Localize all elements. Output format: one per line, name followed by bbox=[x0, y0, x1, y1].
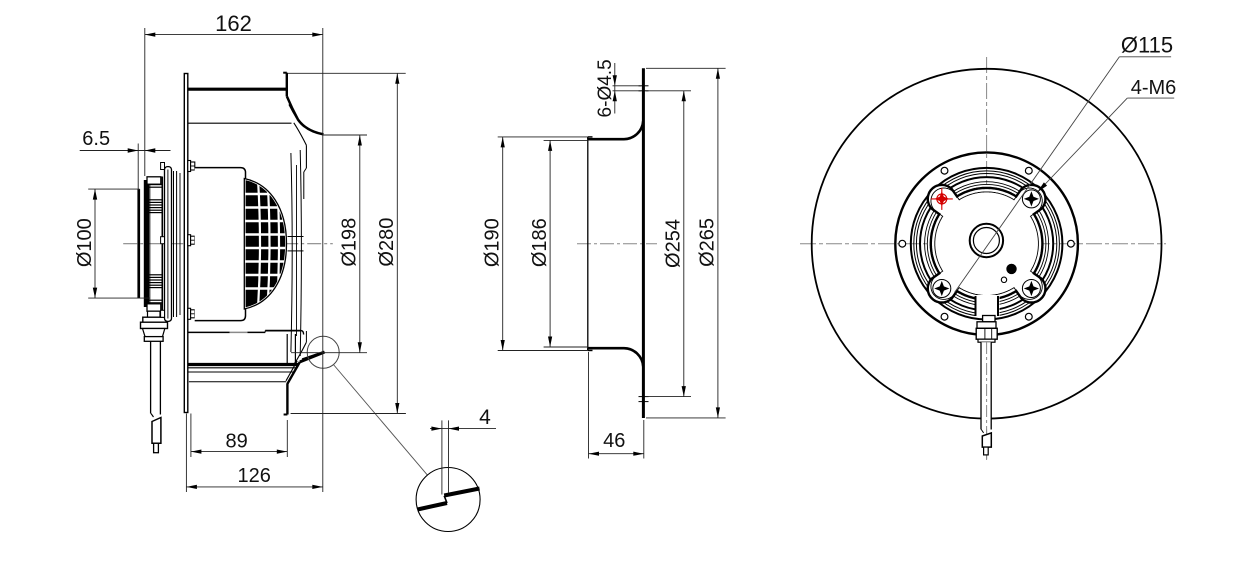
impeller blade edges bbox=[291, 153, 292, 352]
dimension 6-D4.5 bbox=[613, 85, 642, 87]
bolt hole (bottom) bbox=[639, 396, 649, 398]
shaft center hole bbox=[970, 224, 1003, 257]
dimension 89 bbox=[190, 414, 192, 458]
motor body bbox=[195, 168, 246, 321]
dimension D190 bbox=[498, 136, 588, 138]
hub cone bottom edge bbox=[188, 331, 230, 333]
center line (middle view) bbox=[577, 243, 657, 245]
mounting bolts bbox=[188, 161, 191, 172]
dimension 46 bbox=[588, 352, 590, 459]
svg-text:6-Ø4.5: 6-Ø4.5 bbox=[595, 59, 616, 117]
dimension D254 bbox=[646, 90, 691, 92]
detail circle bbox=[416, 468, 480, 532]
shroud inlet profile (top) bbox=[286, 73, 288, 97]
motor terminal bushing stack bbox=[137, 189, 140, 298]
drain dot bbox=[1006, 264, 1016, 274]
flange bolt holes bbox=[1068, 240, 1075, 247]
dimension D198 bbox=[323, 134, 367, 136]
detail leader line bbox=[333, 365, 427, 476]
hub shaft lines bbox=[288, 236, 304, 238]
rotor rim rings bbox=[911, 168, 1063, 320]
cable gland (left view) bbox=[148, 311, 161, 317]
blade top edge (thick) bbox=[188, 88, 287, 91]
blade bottom edge (thick) bbox=[188, 363, 299, 366]
svg-text:Ø100: Ø100 bbox=[74, 218, 96, 267]
cable entry tab bbox=[975, 295, 1000, 317]
center line (left view) bbox=[123, 243, 333, 245]
blade bottom line 2 bbox=[188, 367, 297, 369]
label D115 with leader bbox=[1119, 56, 1171, 58]
dimension 162 bbox=[144, 28, 146, 176]
adapter ring bbox=[173, 171, 175, 317]
svg-text:Ø115: Ø115 bbox=[1121, 32, 1173, 57]
inlet mouth edge bbox=[587, 137, 589, 351]
bearing clover plate bbox=[928, 185, 1046, 303]
dimension D186 bbox=[544, 139, 588, 141]
svg-text:162: 162 bbox=[215, 11, 252, 36]
impeller outer circle bbox=[812, 69, 1162, 419]
cable gland (right view) bbox=[983, 316, 995, 322]
dimension 6.5 bbox=[137, 144, 139, 191]
svg-text:Ø254: Ø254 bbox=[663, 219, 685, 268]
svg-text:46: 46 bbox=[603, 430, 625, 452]
M6 screw (red marked) bbox=[937, 194, 947, 204]
motor flange circle bbox=[895, 152, 1078, 335]
cable (left view) bbox=[150, 341, 152, 413]
shroud bottom verticals bbox=[286, 334, 288, 365]
dimension D100 bbox=[88, 188, 139, 190]
cable connector (left view) bbox=[152, 418, 161, 444]
M6 screws bbox=[1022, 190, 1040, 208]
bolt hole (top) bbox=[639, 85, 649, 87]
blade bottom line 3 bbox=[188, 371, 295, 373]
blade top inner edge bbox=[188, 122, 292, 124]
svg-text:Ø280: Ø280 bbox=[376, 218, 398, 267]
center line horizontal (right view) bbox=[800, 243, 1166, 245]
shroud inlet profile (bottom) bbox=[286, 384, 288, 415]
detail callout circle bbox=[307, 336, 339, 368]
center line vertical (right view) bbox=[986, 57, 988, 460]
svg-text:Ø265: Ø265 bbox=[697, 218, 719, 267]
svg-text:Ø198: Ø198 bbox=[339, 218, 361, 267]
svg-text:4: 4 bbox=[479, 406, 491, 429]
small hole bbox=[1001, 277, 1006, 282]
dimension 126 bbox=[185, 414, 187, 493]
center line through cable (right view) bbox=[986, 342, 988, 460]
cable (right view) bbox=[981, 342, 991, 429]
motor flange plate bbox=[165, 167, 172, 322]
support plate bbox=[184, 74, 188, 413]
dimension D280 bbox=[288, 72, 406, 74]
dimension 4 bbox=[441, 420, 443, 494]
detail lip section bbox=[418, 503, 448, 510]
svg-text:126: 126 bbox=[238, 465, 271, 487]
inlet ring profile bbox=[642, 68, 645, 418]
label 4-M6 with leader bbox=[1127, 97, 1174, 99]
svg-text:6.5: 6.5 bbox=[82, 128, 110, 150]
svg-text:4-M6: 4-M6 bbox=[1131, 77, 1177, 99]
dimension D265 bbox=[646, 67, 726, 69]
svg-text:Ø190: Ø190 bbox=[482, 218, 504, 267]
svg-text:89: 89 bbox=[225, 431, 247, 453]
svg-text:Ø186: Ø186 bbox=[529, 218, 551, 267]
cable connector (right view) bbox=[982, 433, 991, 447]
